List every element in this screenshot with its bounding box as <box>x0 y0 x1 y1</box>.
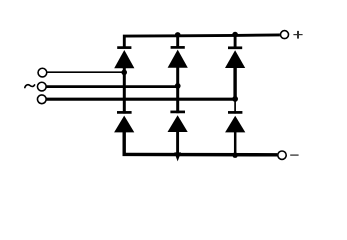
diode D5 triangle <box>168 115 188 132</box>
diode D4 triangle <box>114 116 134 133</box>
wire phase 3 <box>46 98 233 101</box>
node phase 1 junction dot <box>121 70 127 76</box>
wire column 3 middle upper <box>233 67 236 99</box>
wire column 3 bottom leg <box>234 132 237 153</box>
wire column 2 middle <box>176 67 179 113</box>
node top rail junction dot at D2 <box>175 32 181 38</box>
diode D3 cathode bar <box>228 46 242 49</box>
wire phase 1 <box>47 71 123 73</box>
diode D3 triangle <box>225 50 245 68</box>
node phase 2 junction dot <box>175 83 181 89</box>
diode D1 triangle <box>114 50 134 68</box>
node phase 3 junction dot <box>232 96 238 102</box>
wire phase 2 <box>46 85 176 88</box>
diode D2 triangle <box>168 50 188 68</box>
AC input terminal 1 <box>38 68 47 77</box>
wire cathode stub D2 <box>176 36 179 47</box>
label + horizontal stroke <box>293 34 302 36</box>
wire column 1 middle <box>123 67 126 113</box>
AC input terminal 2 <box>37 82 46 91</box>
wire column 3 middle lower thin <box>234 99 236 114</box>
node bottom rail teardrop junction at D5 <box>174 152 181 161</box>
diode D1 cathode bar <box>117 46 131 49</box>
wire negative bottom rail with column 1 leg <box>124 132 277 155</box>
label + vertical stroke <box>297 31 299 39</box>
DC output terminal - <box>278 151 286 159</box>
wire positive top rail <box>124 35 280 49</box>
diode D5 cathode bar <box>170 111 185 114</box>
diode D4 cathode bar <box>117 111 132 114</box>
AC phase label ~ <box>25 85 35 88</box>
AC input terminal 3 <box>37 95 46 104</box>
diode D2 cathode bar <box>171 46 185 49</box>
node top rail junction dot at D3 <box>232 32 238 38</box>
DC output terminal + <box>281 31 289 39</box>
wire column 2 bottom leg <box>176 132 179 153</box>
diode D6 triangle <box>225 116 245 133</box>
node bottom rail junction dot at D6 <box>232 152 238 158</box>
diode D6 cathode bar <box>228 111 242 114</box>
label - stroke <box>290 154 298 156</box>
wire cathode stub D3 <box>234 35 237 47</box>
